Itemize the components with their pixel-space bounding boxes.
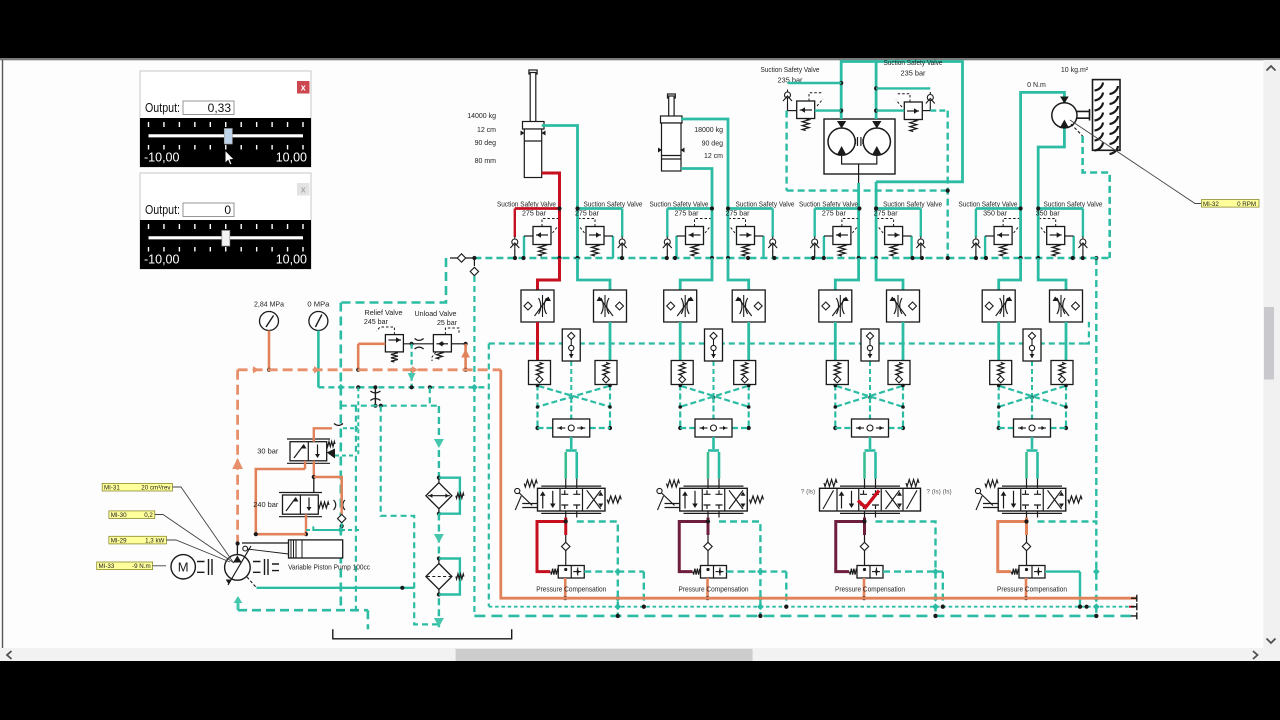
svg-text:20 cm³/rev: 20 cm³/rev [141, 485, 171, 492]
svg-text:0: 0 [224, 203, 231, 217]
load sensing line [489, 322, 1089, 607]
sensor label MI-29 [109, 536, 230, 562]
svg-text:90 deg: 90 deg [475, 140, 497, 147]
wire bank3 B-mid [902, 322, 905, 361]
wire bank4 valve bottom ports [1027, 511, 1038, 518]
wire bank2 A-jog [680, 258, 712, 290]
wire bank3 B drain [876, 522, 939, 619]
video bottom letterbox bar [0, 661, 1280, 720]
label bank2 pressure compensation [679, 586, 749, 593]
cylinder CYL1 (14000 kg) [521, 70, 546, 178]
cylinder CYL2 labels [694, 127, 723, 160]
spring check valve bank2 SCB [734, 361, 756, 385]
spring check valve bank4 SCB [1051, 361, 1073, 385]
label bank3 ls left [801, 489, 815, 496]
shuttle valve bank3 [852, 419, 889, 437]
shuttle valve bank2 [695, 419, 732, 437]
directional valve bank1 DCV1 [538, 486, 606, 513]
suction safety valve SSV6 275 bar [874, 201, 943, 258]
pressure compensator bank4 [1012, 566, 1046, 579]
suction safety valve SSV-L 235 bar label [761, 67, 820, 85]
spring check valve bank3 SCA [826, 361, 848, 385]
wheel tyre [1093, 80, 1121, 154]
wire bank1 valve bottom ports [566, 511, 577, 518]
variable pump P1 [225, 546, 251, 585]
wire unload out [451, 342, 467, 346]
wire drain mid branch [355, 406, 357, 611]
sensor label MI-33 [97, 562, 166, 570]
svg-text:80 mm: 80 mm [475, 158, 497, 165]
check valve bank3 comp [860, 535, 868, 566]
slider panel 2 [140, 173, 311, 269]
wire bank1 compensator pilot loop [537, 518, 568, 572]
canvas left border [2, 60, 4, 648]
pressure gauge PG2 [307, 302, 329, 331]
wire bank4 A-jog [999, 258, 1021, 290]
wire bank3 A-jog [835, 258, 858, 290]
wire bank3 valve bottom ports [865, 511, 876, 518]
svg-text:0 MPa: 0 MPa [307, 302, 329, 309]
svg-text:90 deg: 90 deg [702, 141, 724, 148]
wire bank1 shuttle to valve [566, 437, 577, 488]
valve 30bar label [257, 449, 279, 456]
sensor label MI-32 [1202, 200, 1260, 208]
svg-text:0 RPM: 0 RPM [1237, 201, 1256, 208]
svg-text:Suction Safety Valve: Suction Safety Valve [761, 67, 820, 74]
svg-text:30 bar: 30 bar [257, 449, 279, 456]
check throttle bank1 middle [562, 329, 580, 403]
wire bank1 B-jog [578, 258, 611, 290]
drain bus coarse [474, 614, 1136, 618]
svg-text:18000 kg: 18000 kg [694, 127, 723, 134]
suction safety valve SSV-R 235 bar label [884, 60, 943, 78]
svg-text:275 bar: 275 bar [522, 211, 547, 218]
svg-text:275 bar: 275 bar [822, 211, 847, 218]
directional valve bank3 DCV3 [820, 486, 921, 513]
wire unload to pump line [461, 344, 470, 372]
label unload valve [415, 311, 458, 327]
label relief valve [364, 310, 403, 326]
svg-text:MI-33: MI-33 [99, 563, 115, 570]
wire bank4 B drain [1038, 522, 1100, 619]
cylinder CYL2 (18000 kg) [658, 94, 685, 171]
motor M2 [863, 121, 890, 155]
wire bank3 B-jog [876, 258, 903, 290]
proportional marks bank3 [858, 491, 879, 508]
svg-text:14000 kg: 14000 kg [467, 113, 496, 120]
label bank4 pressure compensation [997, 586, 1067, 593]
svg-text:10,00: 10,00 [276, 253, 307, 267]
svg-text:Pressure Compensation: Pressure Compensation [679, 586, 749, 593]
spring bank1 right [607, 496, 621, 503]
directional valve bank4 DCV4 [998, 486, 1066, 513]
pressure compensator bank1 [551, 566, 585, 579]
pressure control valve PCV 30bar [287, 439, 355, 463]
spring bank4 left [985, 480, 998, 487]
pilot drain bus [318, 384, 489, 391]
wire motor M1 supply [841, 62, 962, 182]
pump suction [234, 596, 368, 629]
check valve bank4 comp [1022, 535, 1030, 566]
wire left drain branch [341, 387, 439, 408]
suction safety valve SSV3 275 bar [650, 201, 715, 258]
svg-text:1,3 kW: 1,3 kW [145, 538, 164, 545]
svg-text:0 N.m: 0 N.m [1027, 82, 1046, 89]
sensor label MI-30 [109, 511, 234, 563]
motor M1 [828, 121, 855, 155]
motor shaft coupling [856, 137, 863, 146]
svg-text:Pressure Compensation: Pressure Compensation [835, 586, 905, 593]
spring check valve bank2 SCA [671, 361, 693, 385]
relief valve RV 245bar [377, 327, 404, 362]
svg-text:350 bar: 350 bar [983, 211, 1008, 218]
flow control valve bank4 FCA [982, 290, 1015, 322]
svg-text:-9 N.m: -9 N.m [132, 563, 151, 570]
cooler F1 [426, 406, 464, 516]
svg-text:Pressure Compensation: Pressure Compensation [536, 586, 606, 593]
pressure gauge PG1 [254, 302, 284, 331]
wire bank1 comp to pump bus [563, 578, 567, 600]
pressure compensator bank2 [693, 566, 727, 579]
spring bank3 right [906, 480, 919, 487]
flow control valve bank1 FCB [594, 290, 627, 322]
wire bank1 A-jog [538, 258, 560, 290]
wire bank3 comp to pump bus [862, 578, 866, 600]
svg-text:Pressure Compensation: Pressure Compensation [997, 586, 1067, 593]
shaft pump right [253, 559, 279, 575]
wire bank2 compensator pilot loop [679, 518, 710, 572]
spring check valve bank4 SCA [990, 361, 1012, 385]
wheel motor labels [1027, 67, 1089, 89]
flow control valve bank2 FCB [732, 290, 765, 322]
label bank3 ls right [926, 489, 951, 496]
check throttle bank2 middle [705, 329, 723, 403]
wire unload pilot drop [408, 344, 416, 388]
svg-text:0,2: 0,2 [144, 512, 153, 519]
wire PG2 [317, 331, 320, 388]
wire bank3 comp out [883, 568, 945, 609]
wire bank2 valve bottom ports [708, 511, 719, 518]
svg-text:MI-30: MI-30 [111, 512, 127, 519]
label bank1 pressure compensation [536, 586, 606, 593]
svg-text:10,00: 10,00 [276, 151, 307, 165]
svg-text:25 bar: 25 bar [437, 320, 458, 327]
wire bank2 B-mid [747, 322, 750, 361]
wheel motor shaft [1077, 109, 1090, 121]
suction safety valve SSV-L 235 bar [783, 83, 841, 131]
cylinder CYL1 labels [467, 113, 496, 165]
wire bank1 A-mid [536, 322, 539, 361]
valve 240bar label [253, 502, 279, 509]
flow control valve bank2 FCA [664, 290, 697, 322]
shuttle valve bank1 [553, 419, 590, 437]
svg-text:275 bar: 275 bar [575, 211, 600, 218]
svg-text:245 bar: 245 bar [364, 319, 389, 326]
suction safety valve SSV5 275 bar [799, 201, 862, 258]
pressure compensator bank3 [850, 566, 884, 579]
wire bank3 compensator pilot loop [836, 518, 867, 572]
svg-text:-10,00: -10,00 [144, 151, 179, 165]
wire bank2 B drain [719, 522, 764, 619]
video top letterbox bar [0, 0, 1280, 58]
wire bank4 shuttle to valve [1027, 437, 1038, 488]
wire motor M2 supply [875, 62, 878, 259]
wheel motor M3 [1021, 92, 1077, 258]
piston pump body [242, 540, 343, 558]
tank return bus [450, 254, 1110, 616]
wire relief supply [356, 344, 385, 372]
wire drain orifice drop [370, 387, 380, 408]
svg-text:0,33: 0,33 [208, 101, 232, 115]
suction safety valve SSV-R 235 bar [876, 88, 948, 131]
spring bank2 right [750, 496, 764, 503]
drain bus fine [489, 605, 1137, 609]
wire 30bar bottom [256, 461, 342, 534]
vertical scrollbar [1264, 60, 1280, 648]
svg-text:MI-32: MI-32 [1203, 201, 1219, 208]
wire bank1 comp out [584, 568, 646, 609]
shuttle valve bank4 [1014, 419, 1051, 437]
svg-text:275 bar: 275 bar [726, 211, 751, 218]
suction safety valve SSV1 275 bar [497, 201, 562, 258]
sensor pointer line MI-32 [1070, 120, 1201, 204]
suction safety valve SSV2 275 bar [575, 201, 643, 258]
flow control valve bank4 FCB [1050, 290, 1083, 322]
wire bank2 comp to pump bus [705, 578, 709, 600]
wire bank3 A-mid [834, 322, 837, 361]
svg-text:x: x [301, 185, 306, 195]
wire bank4 compensator pilot loop [998, 518, 1029, 572]
svg-text:Relief Valve: Relief Valve [365, 310, 403, 317]
wire bank2 B-jog [728, 258, 749, 290]
flow control valve bank3 FCA [819, 290, 852, 322]
wire bank2 comp out [727, 568, 789, 609]
shaft EM1-pump [197, 559, 212, 575]
svg-text:235 bar: 235 bar [901, 71, 927, 78]
lever actuator bank1 [515, 488, 538, 510]
wire bank2 shuttle to valve [708, 437, 719, 488]
wire bank1 B-mid [609, 322, 612, 361]
window top border [0, 58, 1280, 60]
svg-text:Output:: Output: [145, 202, 180, 217]
mouse cursor [225, 150, 234, 165]
anti-cavitation cross bank3 [833, 384, 905, 430]
bus terminators [1131, 595, 1137, 620]
suction safety valve SSV4 275 bar [726, 201, 795, 258]
spring bank4 right [1068, 496, 1082, 503]
wire 30bar top [314, 387, 359, 455]
svg-text:? (ls): ? (ls) [801, 489, 815, 496]
wire cyl1 rod-side [542, 126, 578, 259]
horizontal scrollbar [0, 648, 1280, 661]
sensor label MI-31 [102, 483, 233, 562]
spring check valve bank1 SCA [529, 361, 551, 385]
spring bank1 left [524, 480, 537, 487]
wire cyl1 piston-side [542, 173, 560, 258]
label piston pump [288, 565, 370, 572]
svg-text:2,84 MPa: 2,84 MPa [254, 302, 284, 309]
svg-text:M: M [178, 560, 189, 575]
flow control valve bank1 FCA [521, 290, 554, 322]
anti-cavitation cross bank4 [997, 384, 1068, 430]
node motor supply junctions [839, 81, 878, 211]
svg-text:12 cm: 12 cm [477, 127, 496, 134]
wire bank4 B-jog [1038, 258, 1066, 290]
spring check valve bank1 SCB [595, 361, 617, 385]
svg-text:x: x [301, 83, 306, 93]
pump case drain [247, 577, 414, 590]
wire drain down branch [381, 406, 439, 625]
svg-text:? (ls) (ls): ? (ls) (ls) [926, 489, 951, 496]
check valve bank2 comp [704, 535, 712, 566]
svg-text:Unload Valve: Unload Valve [415, 311, 457, 318]
flow control valve bank3 FCB [887, 290, 920, 322]
wheel motor case drain [1071, 124, 1110, 522]
node bus junctions [513, 256, 1085, 260]
suction safety valve SSV8 350 bar [1036, 201, 1103, 258]
svg-text:240 bar: 240 bar [253, 502, 279, 509]
wire crossover rail [787, 111, 950, 258]
wire 240bar ports [254, 500, 360, 536]
unload valve UV 25bar [432, 328, 459, 361]
directional valve bank2 DCV2 [680, 486, 748, 513]
anti-cavitation cross bank2 [678, 384, 751, 430]
anti-cavitation cross bank1 [535, 384, 612, 430]
pump pressure line [238, 366, 1137, 598]
wire cyl2 rod-side [681, 119, 728, 258]
wire cyl2 piston-side [681, 169, 712, 259]
svg-text:Output:: Output: [145, 100, 180, 115]
svg-text:Suction Safety Valve: Suction Safety Valve [884, 60, 943, 67]
lever actuator bank4 [975, 488, 998, 510]
spring check valve bank3 SCB [888, 361, 910, 385]
motor drain wire [842, 156, 877, 258]
tank T1 [333, 629, 512, 639]
wire bank2 A-mid [679, 322, 682, 361]
orifice RV-UV [403, 339, 433, 350]
svg-text:275 bar: 275 bar [675, 211, 700, 218]
svg-text:275 bar: 275 bar [874, 211, 899, 218]
wire bank4 comp to pump bus [1024, 578, 1028, 600]
wire bank4 comp out [1045, 568, 1100, 609]
wire F2 to tank [434, 598, 444, 629]
svg-text:10 kg.m²: 10 kg.m² [1061, 67, 1089, 74]
svg-text:MI-29: MI-29 [111, 538, 127, 545]
svg-text:350 bar: 350 bar [1036, 211, 1061, 218]
spring bank3 left [824, 480, 837, 487]
wire left standpipe [341, 258, 446, 610]
wire pump pressure drop [232, 370, 243, 555]
check throttle bank4 middle [1023, 329, 1041, 403]
pressure control valve PCV 240bar [279, 493, 345, 517]
slider panel 1 [140, 71, 311, 167]
wire bank1 B drain [577, 522, 621, 619]
suction safety valve SSV7 350 bar [959, 201, 1023, 258]
label bank3 pressure compensation [835, 586, 905, 593]
svg-text:MI-31: MI-31 [104, 485, 120, 492]
hydraulic motor pair M1 M2 box [824, 119, 895, 174]
svg-text:12 cm: 12 cm [704, 153, 723, 160]
filter F2 [426, 556, 464, 596]
wire F1-F2 [434, 514, 444, 559]
svg-text:-10,00: -10,00 [144, 253, 179, 267]
wire bank4 A-mid [997, 322, 1000, 361]
check throttle bank3 middle [861, 329, 879, 403]
electric motor EM1 [171, 555, 195, 579]
svg-text:Variable Piston Pump 100cc: Variable Piston Pump 100cc [288, 565, 370, 572]
check valve bank1 comp [562, 535, 570, 566]
spring bank2 left [667, 480, 680, 487]
wire bank3 shuttle to valve [865, 437, 876, 488]
wire PG1 [267, 331, 271, 372]
wire bank4 B-mid [1065, 322, 1068, 361]
lever actuator bank2 [657, 488, 680, 510]
